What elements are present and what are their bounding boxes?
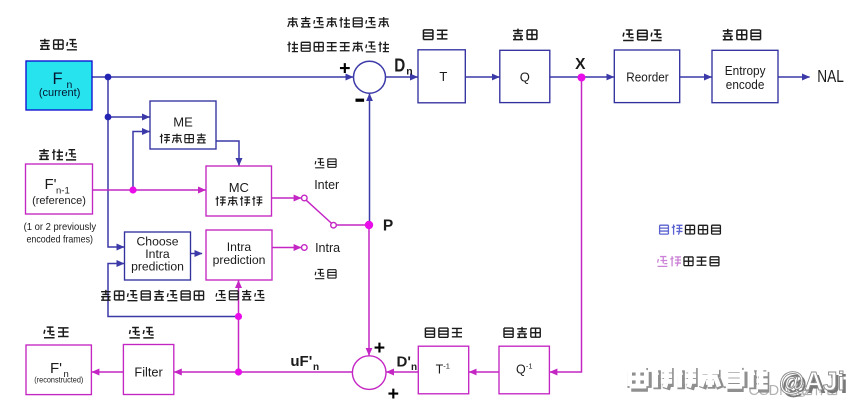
svg-text:uF': uF' [290,353,312,370]
svg-text:Inter: Inter [314,178,339,192]
svg-text:encode: encode [726,77,765,92]
svg-text:Intra: Intra [227,240,252,254]
svg-text:ME: ME [173,115,193,130]
svg-text:n: n [313,362,319,373]
svg-text:X: X [575,56,586,73]
svg-text:n: n [411,362,417,373]
svg-text:F': F' [44,176,56,193]
svg-text:(current): (current) [39,87,81,99]
svg-text:Q: Q [520,69,530,84]
svg-text:(reconstructed): (reconstructed) [34,375,83,385]
svg-text:+: + [339,57,350,79]
svg-text:Intra: Intra [315,241,340,255]
svg-text:-1: -1 [526,362,533,371]
svg-text:Reorder: Reorder [626,71,668,85]
svg-text:MC: MC [229,180,249,195]
svg-text:F: F [52,70,62,88]
svg-text:prediction: prediction [131,260,184,274]
svg-text:n: n [406,66,412,78]
svg-text:D': D' [397,353,411,370]
svg-text:Entropy: Entropy [725,63,766,78]
svg-text:+: + [388,383,399,405]
svg-text:(1 or 2 previously: (1 or 2 previously [24,222,97,233]
svg-text:D: D [394,55,405,75]
svg-text:encoded frames): encoded frames) [27,235,94,246]
svg-text:+: + [374,337,385,359]
svg-text:Filter: Filter [134,365,163,380]
svg-text:@AJi: @AJi [779,366,845,396]
svg-text:Q: Q [516,362,526,376]
svg-text:P: P [383,218,393,235]
svg-text:-1: -1 [443,362,450,371]
svg-text:T: T [439,69,447,84]
svg-text:NAL: NAL [817,66,844,86]
svg-text:prediction: prediction [213,253,266,267]
svg-text:(reference): (reference) [32,195,86,207]
